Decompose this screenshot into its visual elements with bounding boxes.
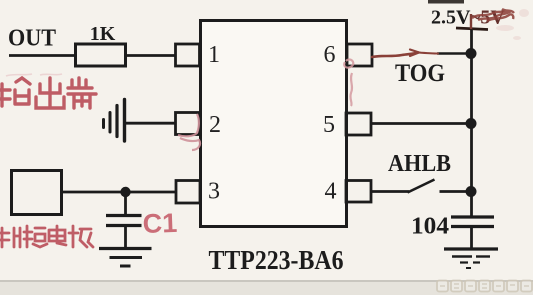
ground (pin 2, bar style): [104, 100, 125, 142]
svg-text:5: 5: [323, 112, 335, 138]
ground (below C1, earth style): [99, 249, 152, 267]
node junction pin6/rail: [466, 48, 477, 59]
capacitor C2 104: [451, 217, 494, 227]
wire OUT to resistor: [9, 54, 76, 57]
wire electrode to pin 3: [62, 191, 177, 194]
pin 3 stub: [176, 181, 200, 204]
node junction pin5/rail: [466, 118, 477, 129]
char 触 partial: [0, 228, 20, 247]
switch SW1 AHLB: [408, 180, 472, 193]
red text 输出端 halo: [6, 74, 62, 76]
power rail wire: [470, 30, 473, 217]
bottom watermark strip: [0, 280, 533, 295]
char 极: [69, 226, 93, 247]
svg-text:104: 104: [411, 214, 449, 240]
pin 2 stub: [176, 113, 200, 135]
svg-text:3: 3: [208, 179, 220, 205]
label U1 TTP223-BA6: [209, 245, 344, 275]
svg-text:AHLB: AHLB: [388, 151, 451, 177]
pin 6 stub: [347, 44, 372, 66]
char 摸: [24, 226, 47, 247]
svg-text:1: 1: [208, 42, 220, 68]
capacitor C1: [106, 216, 142, 226]
red text 触摸电极 (hand-drawn strokes): [0, 226, 93, 247]
node junction pin4/rail: [466, 186, 477, 197]
watermark glyphs bottom-right: [437, 281, 532, 292]
wire C1 to ground: [124, 226, 127, 248]
red scribble around pin2 stub: [178, 114, 200, 150]
char 端: [68, 78, 96, 108]
char 输 partial: [0, 78, 30, 106]
dark smudge top edge: [428, 0, 464, 4]
svg-text:TTP223-BA6: TTP223-BA6: [209, 245, 344, 275]
char 出: [36, 78, 64, 108]
red scribbles over ~5V: [472, 9, 514, 21]
faint pink smudges top right: [496, 9, 529, 40]
char 电: [49, 226, 66, 245]
pin 4 stub: [346, 181, 371, 203]
wire pin 5 to rail: [371, 122, 471, 125]
svg-text:C1: C1: [142, 208, 178, 239]
touch electrode pad: [12, 171, 62, 215]
wire pin 4 to switch: [371, 190, 409, 193]
red text 输出端 (hand-drawn strokes): [0, 78, 96, 108]
red scribble around pin6 stub: [344, 60, 353, 106]
svg-text:OUT: OUT: [8, 26, 56, 52]
wire pin6 black segment to rail: [437, 52, 471, 55]
IC U1 TTP223-BA6 body: [201, 21, 347, 227]
svg-text:6: 6: [324, 42, 336, 68]
svg-text:2: 2: [209, 112, 221, 138]
pin 5 stub: [346, 113, 371, 135]
wire resistor to pin 1: [126, 54, 177, 57]
wire ground to pin 2: [125, 122, 177, 125]
wire (red hand-drawn) pin6 to rail: [372, 50, 438, 58]
watermark glyph inner strokes: [440, 284, 529, 288]
svg-text:TOG: TOG: [395, 60, 445, 87]
svg-text:1K: 1K: [90, 23, 116, 45]
wire junction to C1: [124, 192, 127, 215]
label 2.5V~5V: [431, 7, 505, 29]
ground (below 104): [444, 249, 498, 268]
power terminal top bar: [456, 28, 488, 30]
svg-text:2.5V: 2.5V: [431, 7, 471, 29]
wire C2 to ground: [470, 227, 473, 249]
red stroke above power rail: [470, 14, 472, 29]
resistor R1 1K: [76, 44, 126, 66]
pin 1 stub: [176, 44, 200, 66]
svg-text:4: 4: [325, 179, 337, 205]
node A junction electrode/C1: [120, 187, 130, 197]
